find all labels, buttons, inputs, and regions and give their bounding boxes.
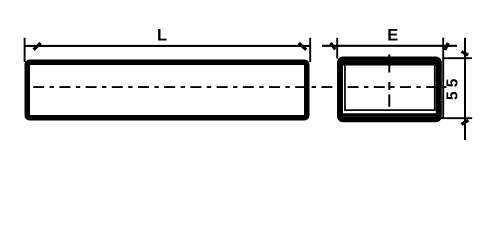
dimension L line bbox=[25, 45, 311, 47]
horizontal centerline bbox=[33, 86, 441, 88]
dimension 55 arrowhead top bbox=[461, 52, 468, 56]
svg-text:55: 55 bbox=[445, 74, 462, 100]
section top wall inner thickening bbox=[343, 63, 436, 66]
dimension L extension line left bbox=[24, 38, 26, 62]
dimension L arrowhead right bbox=[299, 43, 307, 50]
dimension L arrowhead left bbox=[34, 43, 41, 50]
svg-text:L: L bbox=[157, 26, 167, 44]
tube side view outline bbox=[27, 62, 307, 118]
dimension E extension line left bbox=[336, 38, 338, 59]
dimension E arrowhead left bbox=[331, 43, 336, 50]
dimension 55 extension line bottom bbox=[439, 117, 472, 119]
dimension E line bbox=[322, 45, 457, 47]
dimension 55 extension line top bbox=[444, 57, 472, 59]
dimension 55 line bbox=[464, 38, 466, 140]
section vertical centerline dash 1 bbox=[388, 55, 390, 73]
section vertical centerline dash 2 bbox=[388, 82, 390, 90]
section vertical centerline dash 3 bbox=[388, 94, 390, 106]
svg-text:E: E bbox=[387, 26, 398, 44]
dimension L extension line right bbox=[309, 38, 311, 62]
horizontal centerline end dash bbox=[442, 86, 447, 88]
section bottom wall inner thickening bbox=[343, 113, 436, 116]
dimension E arrowhead right bbox=[445, 43, 448, 50]
dimension 55 arrowhead bottom bbox=[461, 120, 468, 124]
dimension E extension line right bbox=[442, 38, 444, 118]
section inner wall line bbox=[345, 65, 435, 111]
section outer frame bbox=[340, 60, 439, 120]
